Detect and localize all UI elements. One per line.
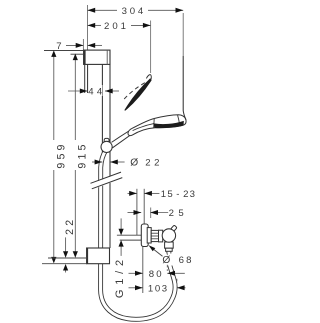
top reference line 959 xyxy=(44,50,84,52)
reference line upper (mixer gap) xyxy=(117,234,142,236)
svg-text:304: 304 xyxy=(122,6,146,17)
hand shower handle xyxy=(112,129,132,142)
gap dimension up arrow xyxy=(120,246,122,256)
mixer knob stub xyxy=(171,225,178,232)
mixer collar xyxy=(159,230,163,242)
svg-text:915: 915 xyxy=(77,141,89,168)
svg-text:25: 25 xyxy=(169,208,189,219)
head face inner rim xyxy=(133,124,154,131)
dimension diameter 22 xyxy=(92,158,163,169)
mixer extension line L1 xyxy=(136,189,138,235)
hose xyxy=(101,150,176,319)
dashed swivel arc xyxy=(124,82,145,99)
slider holder knob xyxy=(101,141,112,152)
break symbol across rail xyxy=(89,172,125,190)
wall plate edge lines below top cap xyxy=(84,64,86,93)
top reference line 915 xyxy=(71,53,84,55)
dimension 25 xyxy=(128,208,189,219)
dimension 44 xyxy=(68,85,119,98)
head back crescent xyxy=(125,79,151,110)
bottom reference line A xyxy=(48,257,87,259)
extension line 25 right xyxy=(150,208,152,219)
wire extension line 304 / head right edge xyxy=(182,13,184,56)
mixer escutcheon xyxy=(141,224,148,247)
svg-text:Ø: Ø xyxy=(162,255,170,266)
gap dimension down arrow xyxy=(120,218,122,229)
svg-text:959: 959 xyxy=(55,141,67,168)
dimension 201 xyxy=(88,21,151,32)
dimension 304 xyxy=(88,6,184,17)
dimension 15-23 xyxy=(128,189,197,200)
svg-text:Ø: Ø xyxy=(130,158,138,169)
svg-text:15-23: 15-23 xyxy=(161,189,196,200)
mixer ribbed block xyxy=(151,230,158,241)
dimension 959 vertical xyxy=(51,50,67,263)
top end cap of wall bar xyxy=(84,50,110,64)
hand shower head face outline xyxy=(128,115,186,136)
head face divider xyxy=(153,119,156,128)
bottom reference line B xyxy=(42,263,87,265)
wire extension line 7 xyxy=(82,39,84,50)
mixer body step xyxy=(147,228,151,243)
rail tube xyxy=(102,64,110,248)
mixer extension line L2 xyxy=(143,189,145,225)
svg-text:G1/2: G1/2 xyxy=(114,255,126,298)
svg-text:103: 103 xyxy=(148,283,169,294)
head right edge xyxy=(183,56,186,120)
reference line lower (mixer gap) xyxy=(120,239,142,241)
dimension 7 xyxy=(56,41,102,52)
dimension 22 vertical xyxy=(63,217,76,273)
callout diameter 68 xyxy=(149,245,194,266)
wire extension line 201 xyxy=(150,21,152,74)
svg-text:22: 22 xyxy=(64,217,76,235)
head face right cap inner edge xyxy=(178,115,180,125)
svg-text:44: 44 xyxy=(88,87,105,98)
wall plate thick edge xyxy=(83,50,85,64)
mixer outlet block xyxy=(165,242,174,248)
mixer hose nut xyxy=(166,248,173,251)
svg-text:80: 80 xyxy=(149,269,164,280)
spray disc dark band xyxy=(154,121,184,127)
svg-text:22: 22 xyxy=(145,158,163,169)
dimension 103 xyxy=(129,279,186,295)
mixer lower extension line xyxy=(142,247,144,293)
head tip hook xyxy=(146,75,151,80)
dimension 915 vertical xyxy=(73,54,89,258)
dimension 80 xyxy=(129,253,185,280)
bottom end cap of wall bar xyxy=(87,248,110,264)
svg-text:201: 201 xyxy=(104,21,129,32)
slider holder nub xyxy=(104,138,109,143)
svg-text:68: 68 xyxy=(179,255,194,266)
mixer knob xyxy=(162,229,175,242)
wire wall extension line top xyxy=(87,5,89,93)
